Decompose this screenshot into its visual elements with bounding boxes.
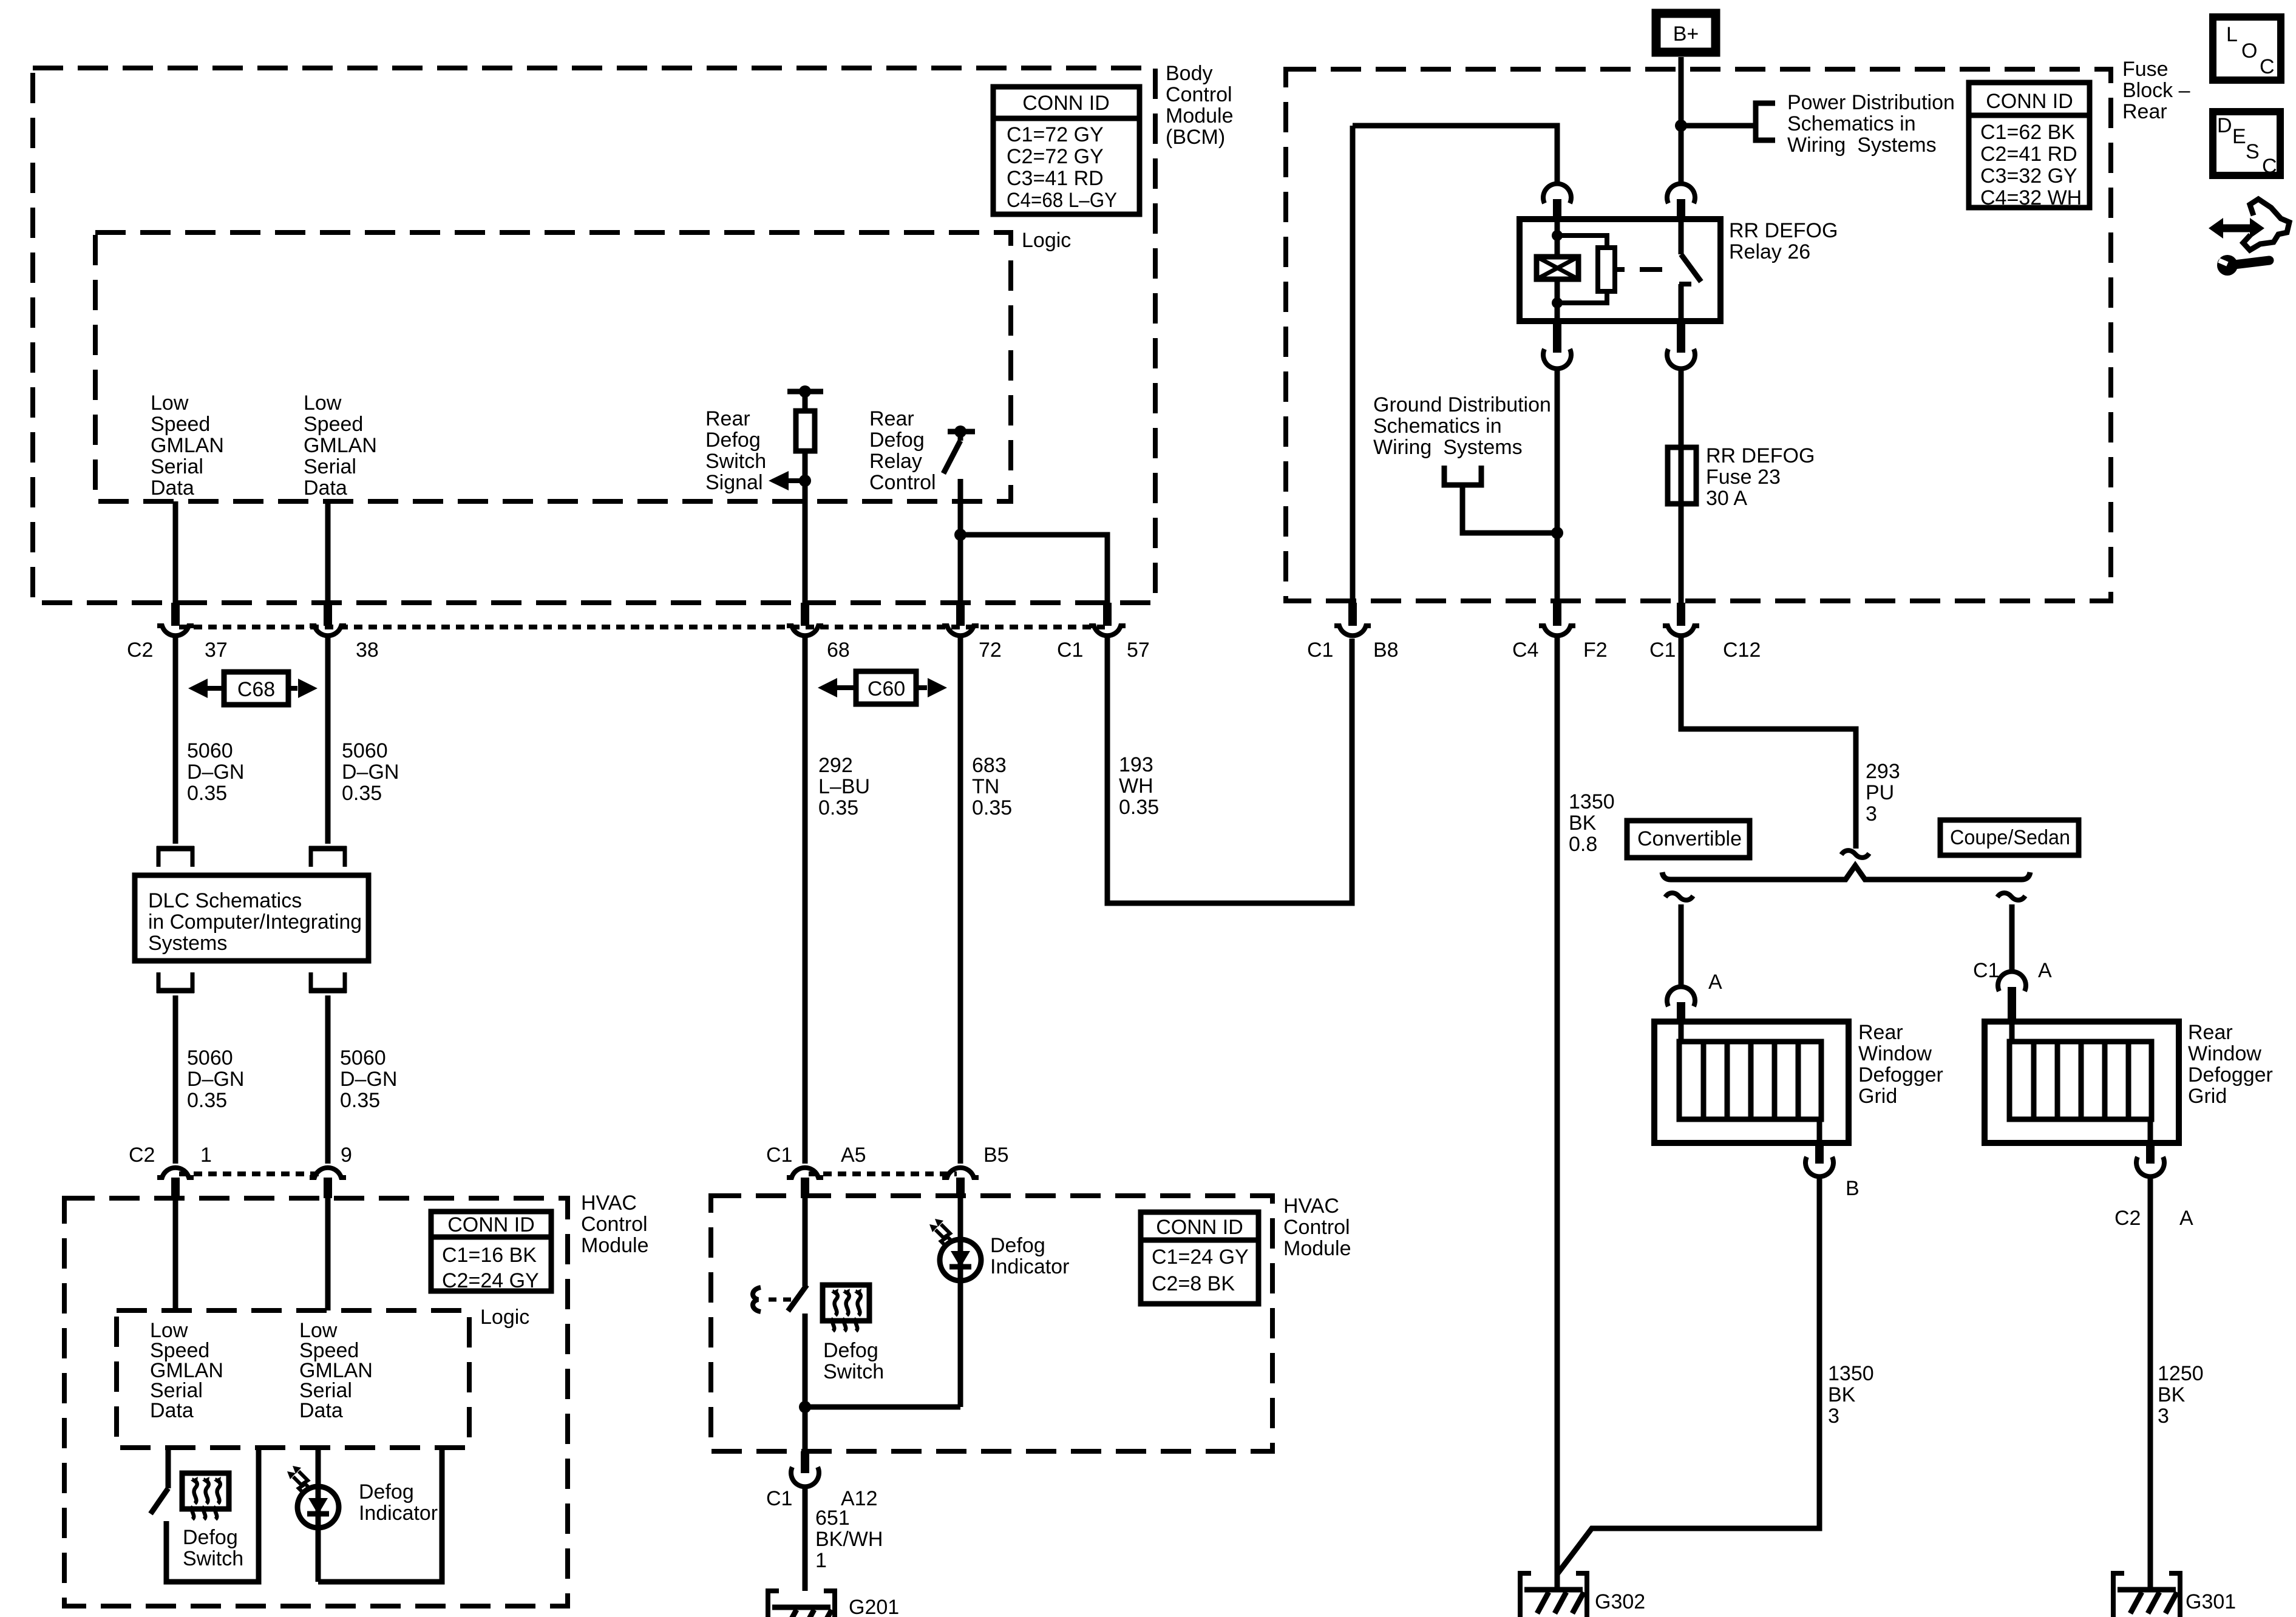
- relay switch contact: [1679, 219, 1701, 321]
- relay RR DEFOG Relay 26 box: [1520, 219, 1720, 321]
- pin C1-A (right grid): [1998, 972, 2026, 991]
- svg-text:CONN ID: CONN ID: [447, 1213, 535, 1236]
- defog indicator LED (left HVAC): [316, 1448, 321, 1582]
- wire convertible branch: [1679, 904, 1684, 988]
- svg-text:C: C: [2262, 155, 2277, 178]
- svg-text:Rear: Rear: [2188, 1021, 2233, 1044]
- svg-text:1350: 1350: [1828, 1362, 1874, 1385]
- svg-text:30 A: 30 A: [1706, 487, 1747, 510]
- svg-text:S: S: [2246, 140, 2260, 163]
- HVAC control module dashed box (middle): [711, 1196, 1272, 1451]
- svg-text:Wiring Systems: Wiring Systems: [1373, 436, 1523, 459]
- svg-text:Power Distribution: Power Distribution: [1787, 91, 1955, 114]
- svg-text:Body: Body: [1166, 62, 1213, 85]
- wire 293 PU (C12 down): [1681, 637, 1856, 849]
- ground G302: [1520, 1573, 1587, 1617]
- HVAC control module dashed box (left): [64, 1198, 568, 1606]
- svg-text:C2: C2: [2114, 1207, 2141, 1230]
- svg-text:D: D: [2217, 114, 2232, 137]
- svg-text:292: 292: [818, 754, 853, 777]
- wire relay coil to F2: [1555, 367, 1560, 604]
- svg-text:1: 1: [200, 1144, 212, 1167]
- junction B+: [1675, 120, 1687, 132]
- switch linkage symbol: [753, 1287, 795, 1312]
- wire to relay coil side: [1353, 126, 1557, 185]
- ground G201: [768, 1591, 835, 1617]
- svg-text:3: 3: [1828, 1405, 1839, 1428]
- svg-text:O: O: [2241, 39, 2257, 63]
- svg-text:in Computer/Integrating: in Computer/Integrating: [148, 910, 362, 934]
- svg-text:5060: 5060: [187, 739, 233, 762]
- relay control switch (inside BCM logic): [943, 432, 975, 605]
- svg-text:G201: G201: [849, 1596, 899, 1617]
- svg-text:Data: Data: [299, 1399, 343, 1422]
- svg-text:C4=32 WH: C4=32 WH: [1980, 186, 2082, 209]
- svg-text:BK: BK: [1569, 812, 1597, 835]
- svg-text:Coupe/Sedan: Coupe/Sedan: [1950, 826, 2070, 849]
- svg-text:Low: Low: [151, 392, 189, 415]
- svg-text:651: 651: [815, 1507, 850, 1530]
- svg-text:193: 193: [1119, 753, 1153, 776]
- LOC reference box: [2213, 17, 2281, 80]
- svg-text:BK/WH: BK/WH: [815, 1528, 883, 1551]
- svg-text:(BCM): (BCM): [1166, 126, 1225, 149]
- pin 72: [956, 603, 965, 626]
- staple terminal above DLC (left): [157, 846, 194, 867]
- svg-text:0.35: 0.35: [972, 796, 1012, 819]
- svg-text:Switch: Switch: [183, 1547, 243, 1570]
- svg-text:C2: C2: [127, 639, 153, 662]
- svg-text:Convertible: Convertible: [1637, 827, 1742, 850]
- pin B (left grid out): [1815, 1143, 1824, 1164]
- svg-text:GMLAN: GMLAN: [304, 434, 377, 457]
- svg-text:Control: Control: [581, 1213, 648, 1236]
- svg-text:C60: C60: [868, 677, 905, 700]
- svg-text:C: C: [2260, 55, 2275, 78]
- svg-text:BK: BK: [2158, 1383, 2186, 1406]
- pin 37: [171, 603, 180, 626]
- svg-text:5060: 5060: [342, 739, 388, 762]
- svg-text:Data: Data: [150, 1399, 194, 1422]
- staple terminal above DLC (right): [309, 846, 347, 867]
- svg-text:CONN ID: CONN ID: [1022, 92, 1110, 115]
- svg-text:Defog: Defog: [823, 1339, 878, 1362]
- svg-text:Speed: Speed: [151, 413, 210, 436]
- HVAC connector dotted row (1-9): [179, 1171, 324, 1176]
- svg-text:A: A: [2179, 1207, 2193, 1230]
- svg-text:F2: F2: [1583, 639, 1608, 662]
- svg-text:Control: Control: [1166, 83, 1232, 106]
- svg-text:L: L: [2226, 23, 2238, 46]
- CONN ID table (left HVAC): [431, 1212, 551, 1292]
- navigation icon (arrow, outline, wrench): [2209, 199, 2289, 276]
- staple terminal below DLC (left): [157, 972, 194, 993]
- svg-text:Module: Module: [581, 1234, 649, 1257]
- svg-text:Control: Control: [1283, 1216, 1350, 1239]
- svg-text:C1: C1: [1307, 639, 1333, 662]
- pin C2-1: [157, 1168, 194, 1178]
- pin F2: [1553, 603, 1561, 626]
- svg-text:A5: A5: [841, 1144, 866, 1167]
- svg-text:GMLAN: GMLAN: [151, 434, 224, 457]
- svg-text:Schematics in: Schematics in: [1373, 415, 1502, 438]
- svg-text:C2: C2: [129, 1144, 155, 1167]
- svg-text:Rear: Rear: [869, 407, 914, 430]
- svg-text:Speed: Speed: [304, 413, 363, 436]
- svg-text:Rear: Rear: [705, 407, 750, 430]
- svg-text:DLC Schematics: DLC Schematics: [148, 889, 302, 912]
- svg-text:Indicator: Indicator: [990, 1255, 1069, 1278]
- svg-text:293: 293: [1866, 760, 1900, 783]
- svg-text:A: A: [1708, 971, 1722, 994]
- CONN ID table (middle HVAC): [1141, 1212, 1258, 1304]
- svg-text:0.35: 0.35: [187, 782, 227, 805]
- svg-text:38: 38: [356, 639, 379, 662]
- svg-text:Serial: Serial: [151, 455, 203, 478]
- wire pin68 inside BCM: [803, 481, 808, 605]
- svg-text:B8: B8: [1373, 639, 1399, 662]
- svg-text:Logic: Logic: [480, 1306, 529, 1329]
- pin 38: [324, 603, 332, 626]
- svg-text:Rear: Rear: [2122, 100, 2167, 123]
- fuse block rear dashed box: [1286, 69, 2111, 601]
- svg-text:Grid: Grid: [2188, 1085, 2227, 1108]
- svg-text:37: 37: [205, 639, 228, 662]
- junction to pin 57: [954, 529, 966, 541]
- wire to pin 57: [960, 535, 1107, 605]
- svg-text:HVAC: HVAC: [581, 1192, 637, 1215]
- svg-text:C1=72 GY: C1=72 GY: [1007, 123, 1104, 146]
- BCM bottom connector dotted row: [179, 625, 1105, 629]
- svg-text:3: 3: [2158, 1405, 2169, 1428]
- relay bottom pin (switch): [1677, 321, 1685, 353]
- svg-text:Systems: Systems: [148, 932, 227, 955]
- svg-text:Data: Data: [304, 476, 347, 500]
- switch lower contact wire (middle): [803, 1314, 808, 1451]
- defog switch contacts (left HVAC): [151, 1448, 259, 1582]
- defog indicator LED (middle HVAC): [958, 1198, 963, 1407]
- DESC reference box: [2213, 112, 2280, 178]
- svg-text:Block –: Block –: [2122, 79, 2190, 102]
- svg-text:C2=41 RD: C2=41 RD: [1980, 143, 2077, 166]
- defog switch (middle HVAC): [803, 1198, 808, 1286]
- svg-text:Switch: Switch: [823, 1360, 884, 1383]
- variant split brace: [1662, 866, 2030, 880]
- svg-text:B+: B+: [1673, 22, 1699, 46]
- svg-text:68: 68: [827, 639, 850, 662]
- svg-text:RR DEFOG: RR DEFOG: [1729, 219, 1838, 242]
- svg-text:Defog: Defog: [705, 429, 761, 452]
- power distribution bracket: [1756, 103, 1775, 140]
- ground G301: [2113, 1573, 2180, 1617]
- wire to power distribution: [1681, 123, 1756, 129]
- svg-text:Serial: Serial: [304, 455, 356, 478]
- svg-text:C4: C4: [1512, 639, 1538, 662]
- wire 292 L-BU (68 to A5): [803, 637, 808, 1164]
- svg-text:B: B: [1846, 1177, 1860, 1200]
- svg-text:Defog: Defog: [990, 1234, 1045, 1257]
- svg-text:PU: PU: [1866, 781, 1894, 804]
- svg-text:5060: 5060: [187, 1046, 233, 1070]
- svg-text:5060: 5060: [340, 1046, 386, 1070]
- svg-text:Low: Low: [304, 392, 342, 415]
- svg-text:RR DEFOG: RR DEFOG: [1706, 444, 1815, 467]
- fuse RR DEFOG Fuse 23 30A: [1668, 447, 1696, 504]
- svg-text:C1: C1: [1973, 959, 1999, 982]
- DLC schematics box: [135, 875, 369, 961]
- svg-text:C1: C1: [766, 1144, 792, 1167]
- svg-text:Wiring Systems: Wiring Systems: [1787, 134, 1937, 157]
- svg-text:Schematics in: Schematics in: [1787, 112, 1916, 135]
- svg-text:HVAC: HVAC: [1283, 1195, 1339, 1218]
- svg-text:CONN ID: CONN ID: [1986, 90, 2073, 113]
- svg-text:C2=72 GY: C2=72 GY: [1007, 145, 1104, 168]
- svg-text:Defogger: Defogger: [2188, 1063, 2273, 1086]
- BCM CONN ID table: [993, 87, 1140, 214]
- wire relay switch to fuse: [1679, 367, 1684, 604]
- signal arrow (to Rear Defog Switch Signal): [789, 478, 805, 483]
- svg-text:Window: Window: [2188, 1042, 2261, 1065]
- svg-text:9: 9: [341, 1144, 352, 1167]
- resistor R (rear defog switch signal pull-up): [787, 392, 823, 481]
- svg-text:Switch: Switch: [705, 450, 766, 473]
- svg-text:G301: G301: [2186, 1590, 2236, 1613]
- svg-text:BK: BK: [1828, 1383, 1856, 1406]
- pin C2-9: [310, 1168, 346, 1178]
- svg-text:Rear: Rear: [1858, 1021, 1903, 1044]
- heater icon (left defog switch): [182, 1473, 229, 1519]
- wire 1350 BK 3 (B to G302): [1558, 1175, 1819, 1573]
- svg-text:Relay: Relay: [869, 450, 922, 473]
- svg-text:Data: Data: [151, 476, 194, 500]
- pin A (left grid): [1667, 987, 1695, 1006]
- pin C1-B5: [942, 1168, 979, 1178]
- staple terminal below DLC (right): [309, 972, 347, 993]
- svg-text:Window: Window: [1858, 1042, 1932, 1065]
- svg-text:C68: C68: [237, 678, 275, 701]
- relay top pin (coil): [1543, 184, 1571, 203]
- wire 193 WH (57 to B8): [1107, 637, 1352, 903]
- wire break (coupe branch): [1997, 893, 2025, 900]
- svg-text:B5: B5: [983, 1144, 1009, 1167]
- connector C68: [188, 672, 318, 705]
- svg-text:Defog: Defog: [183, 1526, 238, 1549]
- svg-text:683: 683: [972, 754, 1007, 777]
- svg-text:C4=68 L–GY: C4=68 L–GY: [1007, 189, 1117, 212]
- svg-text:Module: Module: [1283, 1237, 1351, 1260]
- switch blade (middle): [788, 1285, 807, 1311]
- svg-text:C3=32 GY: C3=32 GY: [1980, 164, 2077, 188]
- wire 683 TN (72 to B5): [958, 637, 963, 1164]
- svg-text:WH: WH: [1119, 775, 1153, 798]
- pin 57: [1103, 603, 1112, 626]
- relay armature link: [1557, 236, 1662, 303]
- body control module BCM dashed box: [33, 68, 1155, 603]
- svg-text:C1=24 GY: C1=24 GY: [1152, 1246, 1249, 1269]
- variant label Convertible: [1627, 821, 1750, 858]
- svg-text:D–GN: D–GN: [187, 1068, 244, 1091]
- svg-text:D–GN: D–GN: [187, 761, 244, 784]
- svg-text:C3=41 RD: C3=41 RD: [1007, 167, 1104, 190]
- wire break (convertible branch): [1665, 893, 1693, 900]
- svg-text:CONN ID: CONN ID: [1156, 1216, 1243, 1239]
- heater icon (middle defog switch): [823, 1285, 869, 1331]
- relay top pin (switch): [1667, 184, 1695, 203]
- pin 68: [801, 603, 809, 626]
- svg-text:0.35: 0.35: [1119, 796, 1159, 819]
- svg-text:Fuse 23: Fuse 23: [1706, 466, 1781, 489]
- svg-text:C1=62 BK: C1=62 BK: [1980, 121, 2075, 144]
- svg-text:Control: Control: [869, 471, 936, 494]
- wire pin9 into logic: [325, 1198, 331, 1310]
- svg-text:Indicator: Indicator: [359, 1502, 438, 1525]
- wire from B+: [1679, 57, 1684, 185]
- svg-text:1350: 1350: [1569, 790, 1615, 813]
- svg-text:D–GN: D–GN: [342, 761, 399, 784]
- svg-text:Defog: Defog: [869, 429, 925, 452]
- svg-text:3: 3: [1866, 802, 1877, 825]
- svg-text:Fuse: Fuse: [2122, 58, 2169, 81]
- CONN ID table (fuse block): [1969, 83, 2090, 209]
- logic dashed box (left HVAC): [117, 1310, 469, 1448]
- svg-text:72: 72: [979, 639, 1002, 662]
- svg-text:0.35: 0.35: [187, 1089, 227, 1112]
- svg-text:A: A: [2038, 959, 2052, 982]
- svg-text:Ground Distribution: Ground Distribution: [1373, 393, 1551, 416]
- wire 5060 lower (9): [325, 995, 331, 1164]
- svg-text:Relay 26: Relay 26: [1729, 240, 1810, 263]
- svg-text:E: E: [2232, 125, 2246, 148]
- variant label Coupe/Sedan: [1940, 820, 2079, 855]
- svg-text:Logic: Logic: [1022, 229, 1071, 252]
- wire 651 BK/WH (A12 to G201): [803, 1485, 808, 1591]
- svg-text:Defog: Defog: [359, 1480, 414, 1503]
- svg-text:Signal: Signal: [705, 471, 763, 494]
- svg-text:57: 57: [1127, 639, 1150, 662]
- svg-text:C2=24 GY: C2=24 GY: [442, 1269, 539, 1292]
- wire 5060 (37) below connector: [173, 637, 178, 844]
- svg-text:Grid: Grid: [1858, 1085, 1897, 1108]
- wire B8 internal: [1350, 126, 1356, 604]
- wire pin38 inside BCM: [325, 501, 331, 605]
- wire pin37 inside BCM: [173, 501, 178, 605]
- svg-text:C1: C1: [1057, 639, 1083, 662]
- svg-text:0.35: 0.35: [818, 796, 858, 819]
- wire 5060 (38) below connector: [325, 637, 331, 844]
- svg-text:0.8: 0.8: [1569, 833, 1597, 856]
- pin C1-A12: [801, 1451, 809, 1473]
- svg-text:TN: TN: [972, 775, 999, 798]
- svg-text:C1=16 BK: C1=16 BK: [442, 1244, 537, 1267]
- ground distribution bracket: [1444, 466, 1557, 533]
- svg-text:1250: 1250: [2158, 1362, 2204, 1385]
- svg-text:Module: Module: [1166, 104, 1234, 127]
- wire break (293): [1841, 850, 1869, 858]
- wire pin1 into logic: [173, 1198, 178, 1310]
- svg-text:0.35: 0.35: [340, 1089, 380, 1112]
- HVAC connector dotted row (A5-B5): [809, 1171, 957, 1176]
- BCM logic dashed box: [95, 232, 1011, 501]
- rear window defogger grid (convertible): [1654, 1022, 1849, 1143]
- rear window defogger grid (coupe/sedan): [1985, 1022, 2179, 1143]
- wire 5060 lower (1): [173, 995, 178, 1164]
- svg-text:C12: C12: [1723, 639, 1761, 662]
- pin C2-A (right grid out): [2146, 1143, 2155, 1164]
- pin C1-A5: [787, 1168, 823, 1178]
- junction switch/indicator: [805, 1405, 960, 1410]
- svg-text:G302: G302: [1595, 1590, 1645, 1613]
- svg-text:C1: C1: [1649, 639, 1676, 662]
- svg-text:Defogger: Defogger: [1858, 1063, 1943, 1086]
- svg-text:1: 1: [815, 1549, 827, 1572]
- wire coupe branch: [2009, 904, 2015, 972]
- svg-text:C2=8 BK: C2=8 BK: [1152, 1272, 1235, 1295]
- relay coil: [1537, 219, 1578, 321]
- svg-text:C1: C1: [766, 1487, 792, 1510]
- wire 1350 BK 0.8 (F2 to G302): [1555, 637, 1560, 1591]
- wire 1250 BK 3 (A to G301): [2148, 1175, 2153, 1591]
- svg-text:D–GN: D–GN: [340, 1068, 397, 1091]
- pin B8: [1348, 603, 1357, 626]
- B+ power symbol: [1656, 13, 1716, 52]
- relay bottom pin (coil): [1553, 321, 1561, 353]
- pin C12: [1677, 603, 1685, 626]
- svg-text:L–BU: L–BU: [818, 775, 870, 798]
- connector C60: [818, 671, 947, 704]
- svg-text:0.35: 0.35: [342, 782, 382, 805]
